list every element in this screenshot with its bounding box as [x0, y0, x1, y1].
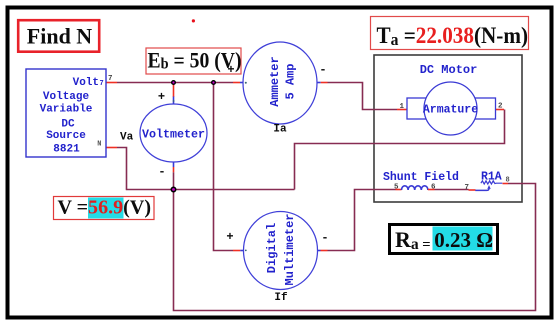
label: Va [120, 132, 134, 144]
red title dot [192, 19, 195, 22]
label: R1A [481, 171, 502, 184]
wire: ammeter minus to armature pin1 [317, 83, 407, 110]
label: Ia [273, 124, 287, 136]
svg-text:Volt: Volt [73, 77, 99, 89]
svg-text:R1A: R1A [481, 171, 502, 184]
pin dot: voltmeter top pin [173, 100, 175, 102]
inductor: shunt field coil (pins 5-6) [402, 186, 476, 190]
pin numbers: armature 1 and 2 [399, 103, 503, 112]
svg-text:5: 5 [394, 184, 399, 192]
svg-text:Shunt Field: Shunt Field [383, 171, 459, 184]
ammeter A1 (5 Amp) [227, 42, 326, 124]
svg-text:5 Amp: 5 Amp [284, 63, 298, 99]
svg-text:Ta =22.038(N-m): Ta =22.038(N-m) [377, 23, 529, 49]
svg-text:Digital: Digital [265, 223, 279, 273]
svg-text:7: 7 [465, 184, 470, 192]
label box: Ra = 0.23 ohm [390, 225, 498, 254]
svg-text:Voltage: Voltage [43, 91, 90, 103]
svg-text:-: - [321, 231, 328, 245]
voltmeter V1 [140, 90, 207, 179]
svg-text:V =56.9(V): V =56.9(V) [58, 197, 152, 219]
svg-text:Voltmeter: Voltmeter [142, 127, 205, 141]
label box: V = 56.9 (V) [54, 197, 155, 220]
svg-text:Ia: Ia [273, 124, 287, 136]
label box: Eb = 50 (V) [146, 48, 242, 75]
wire: multimeter minus up to shunt field pin 5 [317, 190, 402, 251]
svg-text:2: 2 [498, 103, 503, 111]
pin numbers: 5 6 7 8 [394, 177, 510, 193]
pin dot: ammeter left pin [245, 82, 247, 84]
junction A (voltmeter tap) [172, 81, 176, 85]
svg-text:N: N [97, 141, 101, 149]
svg-text:8821: 8821 [53, 144, 80, 156]
label box: Find N [18, 20, 99, 52]
svg-text:6: 6 [431, 184, 436, 192]
svg-text:Multimeter: Multimeter [283, 213, 297, 285]
label: Shunt Field [383, 171, 459, 184]
svg-text:-: - [319, 63, 326, 77]
wire: voltmeter minus lead down to junction C [173, 162, 175, 189]
svg-text:Armature: Armature [423, 104, 478, 117]
svg-text:DC Motor: DC Motor [420, 63, 478, 77]
svg-text:Ra = 0.23 Ω: Ra = 0.23 Ω [395, 227, 493, 253]
wire: junction B down to digital multimeter plus [214, 84, 245, 251]
svg-text:Source: Source [46, 130, 86, 142]
wire: top bus from DC source pin 7 to ammeter [106, 82, 244, 84]
svg-text:If: If [274, 292, 288, 304]
svg-text:+: + [226, 230, 233, 244]
svg-text:1: 1 [399, 103, 404, 111]
resistor R1A (rheostat, pins 7-8) [475, 181, 502, 191]
pin dot: multimeter left pin [245, 250, 247, 252]
svg-text:Find N: Find N [27, 24, 93, 49]
svg-text:Variable: Variable [40, 104, 93, 116]
junction C (bottom bus tap) [171, 187, 175, 191]
wire: horizontal bus y189 from x126 to armature-return corner [126, 189, 295, 191]
svg-text:+: + [158, 90, 165, 104]
DC Motor enclosure box [374, 55, 522, 202]
digital multimeter XMM1 [226, 212, 328, 290]
pin number 7 (DC source, outside) [108, 75, 113, 83]
DC source box [26, 69, 106, 157]
svg-text:-: - [158, 165, 165, 179]
svg-text:Va: Va [120, 132, 134, 144]
wire: DC source pin N to node y189 [106, 148, 127, 190]
svg-text:+: + [227, 63, 234, 77]
svg-text:Ammeter: Ammeter [268, 56, 282, 106]
svg-text:7: 7 [100, 80, 104, 88]
junction B (multimeter tap) [212, 81, 216, 85]
wire: armature pin2 return (down, left, down to bus) [295, 110, 505, 190]
wire: voltmeter plus lead from junction A [173, 84, 175, 105]
label: If [274, 292, 288, 304]
svg-text:DC: DC [61, 119, 75, 131]
armature (motor) with pin pads [407, 82, 496, 135]
svg-text:8: 8 [506, 177, 510, 185]
svg-text:7: 7 [108, 75, 113, 83]
label box: Ta = 22.038 (N-m) [371, 17, 529, 50]
wire: junction C to bottom bus, up right side to R1A pin 8 [174, 184, 536, 311]
